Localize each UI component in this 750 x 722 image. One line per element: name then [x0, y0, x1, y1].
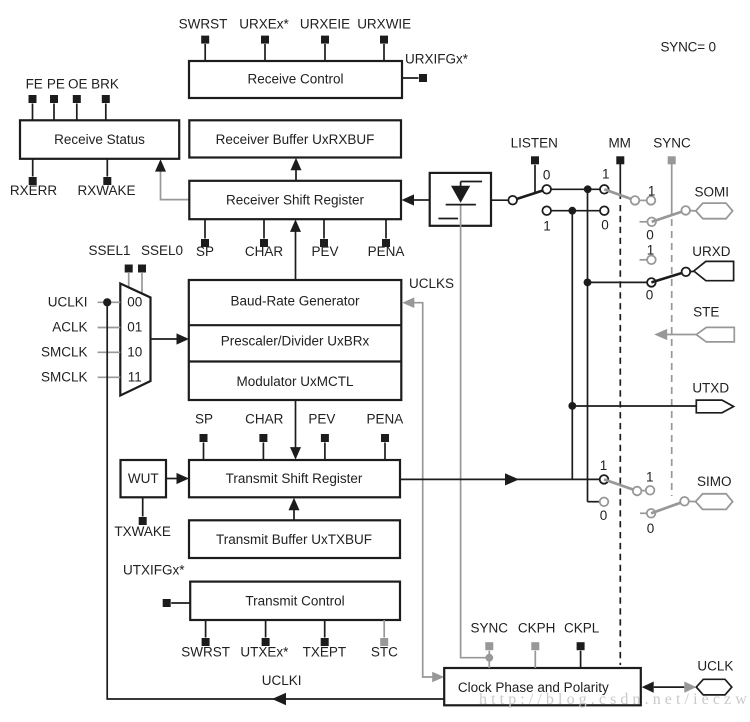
mux clock selector — [120, 284, 150, 396]
pin URXEIE — [300, 17, 350, 62]
svg-text:UTXEx*: UTXEx* — [240, 645, 289, 660]
svg-text:Receive Control: Receive Control — [247, 72, 343, 87]
svg-text:PEV: PEV — [308, 412, 335, 427]
pin SSEL0 — [138, 243, 183, 294]
svg-text:RXERR: RXERR — [10, 183, 58, 198]
svg-text:1: 1 — [602, 167, 610, 182]
node URXD contact 0 — [646, 278, 656, 302]
svg-text:0: 0 — [646, 288, 654, 303]
node LISTEN contact 0 — [542, 168, 551, 194]
svg-text:Receiver Buffer UxRXBUF: Receiver Buffer UxRXBUF — [216, 132, 375, 147]
block Transmit Control — [190, 582, 400, 620]
svg-text:SYNC= 0: SYNC= 0 — [661, 40, 716, 55]
switch LISTEN lever — [513, 189, 547, 200]
pin SYNC (top) — [653, 135, 691, 164]
svg-text:CKPL: CKPL — [564, 621, 600, 636]
pin BRK — [91, 77, 119, 121]
node switch common from schmitt — [508, 196, 517, 205]
wire UCLKS to baud-rate generator — [402, 297, 444, 682]
pin SWRST (transmit control) — [181, 620, 230, 660]
svg-text:Baud-Rate Generator: Baud-Rate Generator — [230, 294, 360, 309]
svg-text:SWRST: SWRST — [179, 17, 228, 32]
schmitt-trigger input buffer U1 — [430, 173, 491, 226]
svg-text:0: 0 — [646, 228, 654, 243]
wire shift-register to receive status arrow — [155, 159, 189, 199]
svg-text:Transmit Shift Register: Transmit Shift Register — [226, 471, 363, 486]
port STE — [693, 305, 734, 342]
svg-text:URXD: URXD — [692, 244, 731, 259]
block Baud-Rate Generator stack — [189, 280, 401, 400]
wire schmitt output to switch — [491, 199, 508, 201]
node URXD contact 1 — [640, 243, 656, 265]
wire UTXD row — [572, 405, 696, 407]
watermark — [479, 691, 750, 708]
svg-text:URXWIE: URXWIE — [357, 17, 411, 32]
svg-text:SMCLK: SMCLK — [41, 370, 88, 385]
svg-text:CKPH: CKPH — [518, 621, 556, 636]
svg-text:URXEIE: URXEIE — [300, 17, 350, 32]
svg-text:0: 0 — [601, 218, 609, 233]
pin TXEPT — [303, 620, 347, 660]
svg-text:SMCLK: SMCLK — [41, 345, 88, 360]
pin PEV (transmit) — [308, 412, 335, 461]
wire TX data rail — [568, 211, 576, 480]
pin PEV (receiver) — [311, 219, 338, 259]
block Receiver Buffer UxRXBUF — [189, 120, 401, 157]
svg-text:SOMI: SOMI — [694, 185, 729, 200]
pin STC — [371, 620, 398, 660]
wire transmit shift register output — [400, 473, 600, 485]
svg-text:1: 1 — [646, 470, 654, 485]
svg-text:CHAR: CHAR — [245, 412, 284, 427]
pin SP (transmit) — [195, 412, 213, 461]
svg-text:PEV: PEV — [311, 244, 338, 259]
svg-text:00: 00 — [127, 295, 142, 310]
pin RXERR — [10, 159, 58, 198]
svg-text:UCLKI: UCLKI — [48, 295, 88, 310]
node SMCLK input 10 — [41, 345, 120, 360]
svg-text:0: 0 — [543, 168, 551, 183]
port SIMO — [696, 474, 733, 509]
svg-text:MM: MM — [608, 135, 631, 150]
pin SWRST (receive control) — [179, 17, 228, 62]
node TX contact 0 — [600, 498, 609, 524]
svg-text:Receiver Shift Register: Receiver Shift Register — [226, 193, 365, 208]
wire WUT to transmit shift register — [166, 473, 189, 484]
svg-text:Receive Status: Receive Status — [54, 132, 145, 147]
block Transmit Shift Register — [189, 460, 400, 497]
switch MM lever — [604, 189, 639, 204]
svg-text:ACLK: ACLK — [52, 320, 87, 335]
svg-text:10: 10 — [127, 345, 142, 360]
label SYNC= 0 — [661, 40, 716, 55]
svg-text:OE: OE — [68, 77, 88, 92]
svg-text:TXWAKE: TXWAKE — [114, 524, 171, 539]
svg-text:11: 11 — [128, 370, 142, 385]
switch SYNC lever SIMO — [651, 497, 689, 513]
svg-text:Transmit Control: Transmit Control — [245, 594, 344, 609]
block WUT — [121, 460, 167, 497]
node SMCLK input 11 — [41, 370, 120, 385]
svg-text:URXIFGx*: URXIFGx* — [405, 52, 469, 67]
pin URXEx* — [239, 17, 289, 62]
svg-text:SYNC: SYNC — [653, 135, 691, 150]
pin LISTEN — [511, 135, 558, 194]
block Clock Phase and Polarity — [444, 668, 641, 705]
pin RXWAKE — [77, 159, 135, 198]
wire UCLKI feedback rail — [107, 302, 444, 705]
svg-text:UCLKS: UCLKS — [409, 276, 454, 291]
svg-text:1: 1 — [543, 219, 551, 234]
node TX contact 1 — [600, 458, 609, 484]
node UCLKI input — [48, 295, 121, 310]
wire schmitt to receiver shift register — [402, 194, 430, 205]
node MM contact 0 — [600, 206, 609, 232]
node SOMI contact 1 — [647, 184, 656, 205]
wire mux to baud-rate generator — [151, 333, 190, 344]
svg-text:UTXD: UTXD — [692, 381, 729, 396]
pin CKPH — [518, 621, 556, 669]
svg-text:1: 1 — [600, 458, 608, 473]
pin URXWIE — [357, 17, 411, 62]
svg-text:SWRST: SWRST — [181, 645, 230, 660]
switch SYNC lever SOMI — [652, 206, 690, 222]
svg-text:CHAR: CHAR — [245, 244, 284, 259]
wire to URXD port — [690, 270, 694, 272]
svg-text:PENA: PENA — [368, 244, 405, 259]
svg-text:0: 0 — [600, 508, 608, 523]
node SIMO contact 1 — [646, 470, 655, 495]
pin SP (receiver) — [196, 219, 214, 259]
wire to SOMI port — [690, 210, 696, 212]
wire SYNC net from schmitt down — [461, 206, 490, 658]
wire row2 — [551, 207, 600, 215]
wire UCLK to clock phase — [642, 682, 697, 693]
pin OE — [68, 77, 88, 121]
node LISTEN contact 1 — [542, 206, 551, 233]
svg-text:1: 1 — [647, 243, 655, 258]
svg-text:SIMO: SIMO — [697, 474, 732, 489]
svg-text:UCLK: UCLK — [697, 658, 733, 673]
pin PE — [47, 77, 65, 121]
wire RX data rail — [584, 189, 600, 501]
port SOMI — [694, 185, 732, 219]
wire STE arrow — [654, 329, 696, 340]
block Receive Control — [189, 61, 402, 98]
svg-text:LISTEN: LISTEN — [511, 135, 558, 150]
block Receive Status — [20, 120, 179, 159]
wire MM TX output contact — [641, 490, 645, 492]
svg-text:0: 0 — [647, 521, 655, 536]
node ACLK input — [52, 320, 120, 335]
pin TXWAKE — [114, 497, 171, 539]
pin PENA (receiver) — [368, 219, 405, 259]
svg-text:RXWAKE: RXWAKE — [77, 183, 135, 198]
block Transmit Buffer UxTXBUF — [189, 520, 400, 558]
switch SYNC lever URXD — [651, 268, 690, 283]
pin UTXIFGx* — [123, 563, 190, 608]
svg-text:SP: SP — [195, 412, 213, 427]
pin FE — [26, 77, 43, 121]
wire to SIMO port — [689, 500, 696, 502]
svg-text:WUT: WUT — [128, 471, 159, 486]
wire transmit buffer to shift register arrow — [289, 498, 300, 521]
wire baud clock to transmit shift register — [290, 400, 301, 460]
svg-text:SYNC: SYNC — [471, 621, 509, 636]
pin CHAR (receiver) — [245, 219, 284, 259]
port UTXD — [692, 381, 733, 413]
svg-text:01: 01 — [127, 320, 142, 335]
svg-text:STE: STE — [693, 305, 719, 320]
svg-text:TXEPT: TXEPT — [303, 645, 347, 660]
pin SYNC (clock) — [471, 621, 509, 669]
svg-text:Prescaler/Divider UxBRx: Prescaler/Divider UxBRx — [221, 334, 370, 349]
svg-text:SSEL0: SSEL0 — [141, 243, 183, 258]
svg-text:PE: PE — [47, 77, 65, 92]
port UCLK — [696, 658, 733, 695]
dashed net MM select line — [619, 164, 621, 665]
svg-text:http://blog.csdn.net/ieczw: http://blog.csdn.net/ieczw — [479, 691, 750, 708]
wire baud clock to receiver shift register — [290, 219, 301, 280]
wire URXD row — [588, 281, 648, 283]
svg-text:URXEx*: URXEx* — [239, 17, 289, 32]
pin MM — [608, 135, 631, 164]
pin SSEL1 — [88, 243, 132, 288]
svg-text:PENA: PENA — [367, 412, 404, 427]
svg-text:Transmit Buffer UxTXBUF: Transmit Buffer UxTXBUF — [216, 532, 372, 547]
svg-text:SSEL1: SSEL1 — [88, 243, 130, 258]
pin URXIFGx* — [402, 52, 469, 83]
wire MM output to SOMI contact — [639, 199, 646, 201]
port URXD — [692, 244, 733, 281]
pin CKPL — [564, 621, 600, 669]
node SIMO contact 0 — [640, 509, 655, 536]
dashed net SYNC select line — [671, 164, 673, 496]
svg-text:Modulator UxMCTL: Modulator UxMCTL — [236, 374, 354, 389]
switch MM lever TX — [604, 479, 641, 495]
pin PENA (transmit) — [367, 412, 404, 461]
block Receiver Shift Register — [189, 181, 401, 219]
svg-text:SP: SP — [196, 244, 214, 259]
svg-text:UCLKI: UCLKI — [262, 673, 302, 688]
node SOMI contact 0 — [640, 218, 657, 243]
svg-text:BRK: BRK — [91, 77, 119, 92]
node MM contact 1 — [600, 167, 610, 194]
svg-text:UTXIFGx*: UTXIFGx* — [123, 563, 185, 578]
wire shift-register to buffer arrow — [291, 158, 302, 181]
pin CHAR (transmit) — [245, 412, 284, 461]
svg-text:FE: FE — [26, 77, 43, 92]
node UCLKS — [409, 276, 454, 291]
pin UTXEx* — [240, 620, 289, 660]
svg-text:1: 1 — [648, 184, 656, 199]
svg-text:STC: STC — [371, 645, 398, 660]
wire row1 — [551, 185, 600, 193]
